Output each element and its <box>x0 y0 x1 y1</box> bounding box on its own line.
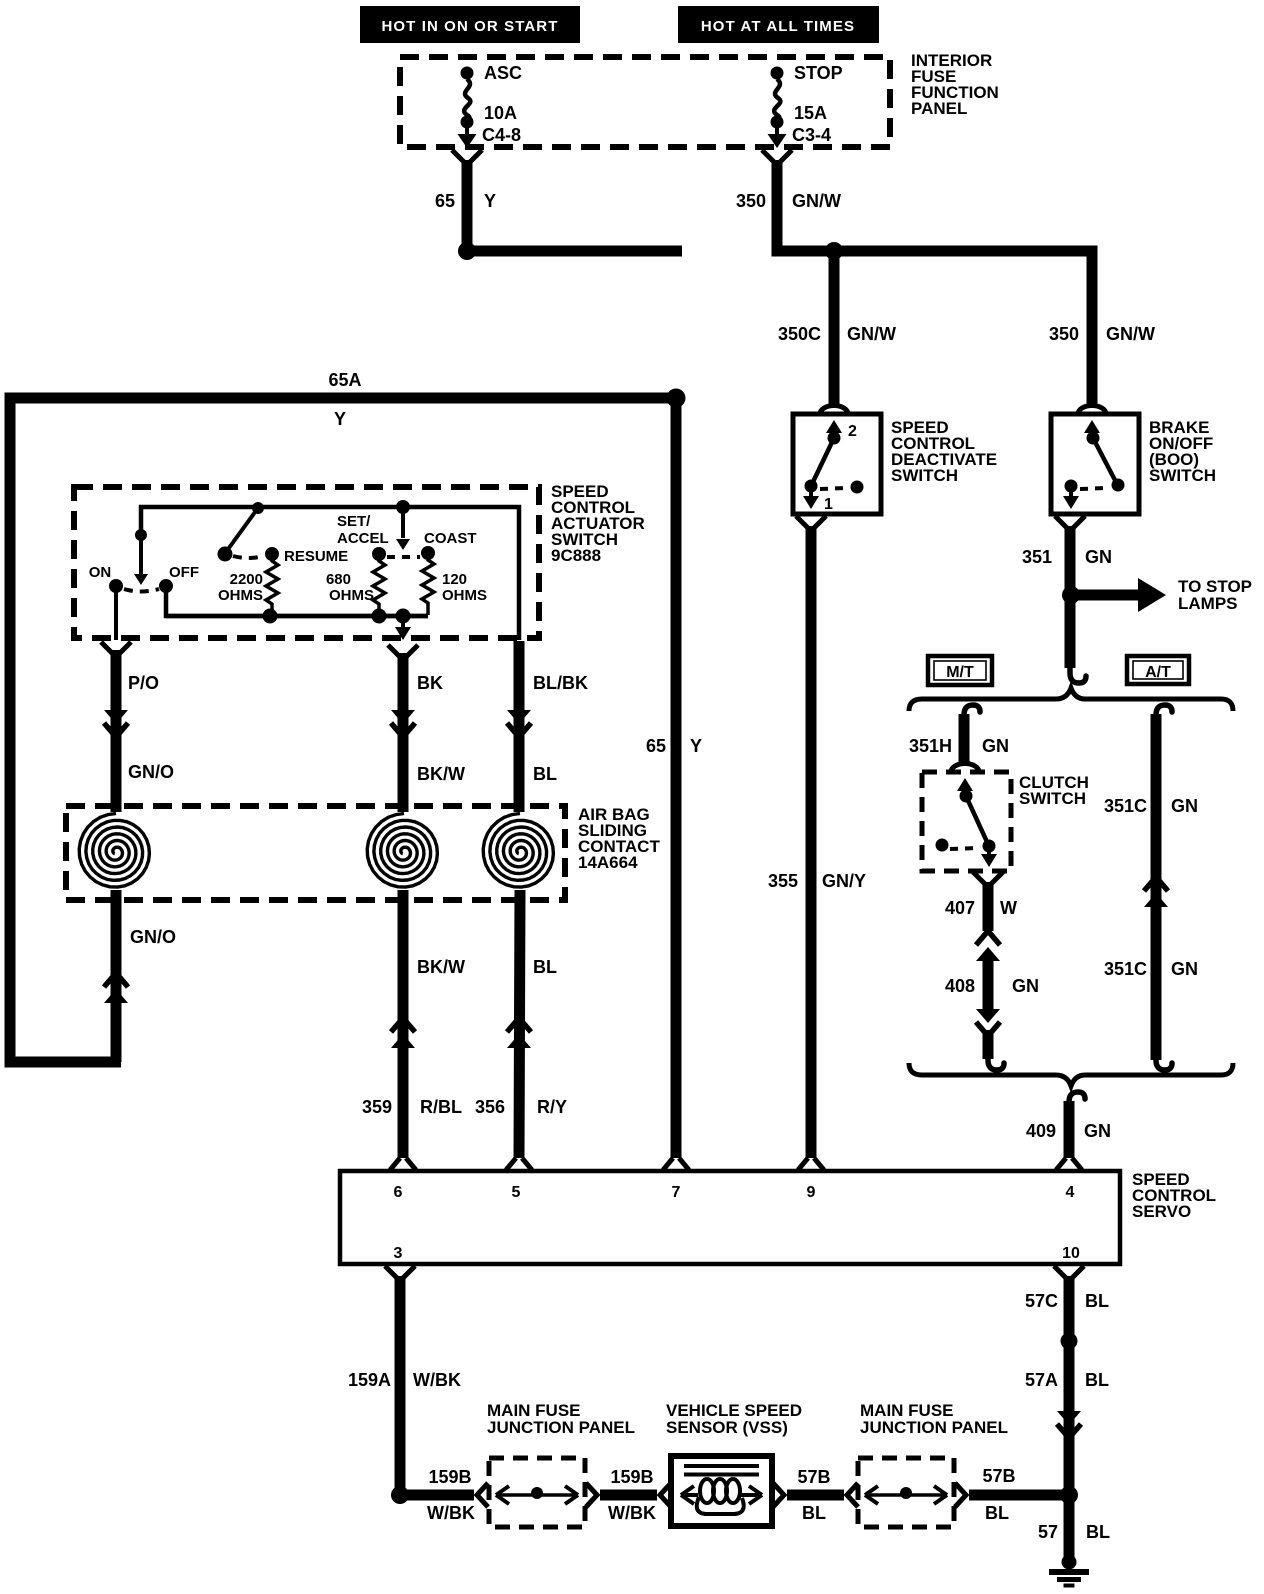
svg-text:C3-4: C3-4 <box>792 125 831 145</box>
svg-text:Y: Y <box>484 191 496 211</box>
svg-text:10A: 10A <box>484 103 517 123</box>
brake on/off (BOO) switch box <box>1051 414 1139 514</box>
dashed contact SET-COAST <box>387 555 420 559</box>
label BRAKE ON/OFF (BOO) SWITCH <box>1149 418 1216 485</box>
junction node 57 <box>1060 1486 1078 1504</box>
resume arm diagonal <box>218 502 265 562</box>
resistor 2200 OHMS <box>218 554 278 616</box>
svg-text:W/BK: W/BK <box>608 1503 656 1523</box>
dashed contact arc ON-OFF <box>124 589 159 592</box>
servo entry pin 4 <box>1056 1158 1082 1170</box>
svg-text:HOT AT ALL TIMES: HOT AT ALL TIMES <box>701 18 855 35</box>
wire 351C hook <box>1156 705 1172 724</box>
connector lower on 408 wire <box>976 1009 1000 1023</box>
svg-text:GN: GN <box>982 736 1009 756</box>
svg-text:350C: 350C <box>778 324 821 344</box>
spiral contact 1 <box>79 814 149 888</box>
clutch switch entry <box>951 764 979 773</box>
svg-text:9: 9 <box>807 1184 816 1201</box>
wire 351H GN hook <box>964 705 980 724</box>
svg-text:359: 359 <box>362 1097 392 1117</box>
connector on BK/W lower <box>391 1018 415 1032</box>
label VEHICLE SPEED SENSOR (VSS) <box>666 1401 802 1437</box>
svg-text:SET/: SET/ <box>337 513 371 530</box>
svg-text:14A664: 14A664 <box>578 853 638 872</box>
svg-text:57B: 57B <box>797 1467 830 1487</box>
header HOT IN ON OR START <box>360 6 580 43</box>
air bag sliding contact box 14A664 <box>66 806 565 900</box>
clutch switch exit <box>973 872 1003 885</box>
svg-text:65: 65 <box>646 736 666 756</box>
wire 409 GN <box>1026 1101 1111 1158</box>
svg-text:BL: BL <box>533 957 557 977</box>
svg-text:SWITCH: SWITCH <box>1019 789 1086 808</box>
svg-text:R/Y: R/Y <box>537 1097 567 1117</box>
wire 408 end hook <box>988 1051 1004 1070</box>
wire 351 GN <box>1022 526 1112 668</box>
svg-text:350: 350 <box>1049 324 1079 344</box>
svg-text:COAST: COAST <box>424 530 477 547</box>
label MAIN FUSE JUNCTION PANEL 1 <box>487 1401 635 1437</box>
svg-text:W/BK: W/BK <box>427 1503 475 1523</box>
svg-text:SWITCH: SWITCH <box>1149 466 1216 485</box>
svg-text:408: 408 <box>945 976 975 996</box>
svg-text:7: 7 <box>672 1184 681 1201</box>
label AIR BAG SLIDING CONTACT 14A664 <box>578 805 660 872</box>
svg-text:GN/O: GN/O <box>130 927 176 947</box>
wire from ON contact down <box>114 592 118 640</box>
fuse ASC 10A <box>458 63 523 148</box>
contact ON <box>89 564 123 593</box>
svg-text:5: 5 <box>512 1184 521 1201</box>
wire from OFF contact to bottom line <box>166 592 428 616</box>
svg-text:BL: BL <box>802 1503 826 1523</box>
label SPEED CONTROL ACTUATOR SWITCH 9C888 <box>551 482 645 565</box>
contact OFF <box>159 564 199 593</box>
wire 350 GN/W label right branch <box>1049 324 1155 344</box>
wire BK/W lower to servo pin 6 <box>362 890 465 1158</box>
wire BL/BK from coast side <box>519 641 588 812</box>
speed control deactivate switch box <box>793 414 881 514</box>
wire 408 to brace <box>983 1030 994 1059</box>
wire 350 GN/W from fuse <box>736 150 1092 404</box>
svg-text:GN/O: GN/O <box>128 762 174 782</box>
speed control servo box <box>340 1171 1120 1264</box>
svg-text:350: 350 <box>736 191 766 211</box>
connector on GN/O lower <box>104 973 128 987</box>
svg-text:OHMS: OHMS <box>442 587 487 604</box>
svg-text:57: 57 <box>1038 1522 1058 1542</box>
svg-text:10: 10 <box>1062 1245 1080 1262</box>
svg-text:BK/W: BK/W <box>417 764 465 784</box>
svg-text:409: 409 <box>1026 1121 1056 1141</box>
svg-text:680: 680 <box>326 571 351 588</box>
svg-text:BL: BL <box>1085 1370 1109 1390</box>
wire 65 Y from fuse to junction <box>435 150 496 251</box>
svg-text:BL: BL <box>985 1503 1009 1523</box>
brake switch exit <box>1055 516 1085 529</box>
svg-text:GN: GN <box>1084 1121 1111 1141</box>
wire 351C GN upper <box>1104 714 1198 1060</box>
svg-text:W: W <box>1000 898 1017 918</box>
wire 57 BL to ground <box>1038 1495 1110 1562</box>
main fuse junction panel box 2 <box>858 1458 954 1527</box>
resistor 680 OHMS <box>326 554 385 616</box>
servo pin 10 exit <box>1054 1266 1084 1279</box>
servo pin numbers <box>394 1184 1080 1262</box>
wire 57B BL segment 2 <box>969 1466 1069 1523</box>
svg-text:159B: 159B <box>428 1467 471 1487</box>
connector on BL/BK wire <box>507 710 531 724</box>
svg-text:351H: 351H <box>909 736 952 756</box>
svg-text:159B: 159B <box>610 1467 653 1487</box>
svg-text:BL: BL <box>1086 1522 1110 1542</box>
svg-text:BK/W: BK/W <box>417 957 465 977</box>
svg-text:RESUME: RESUME <box>284 548 348 565</box>
svg-text:ON: ON <box>89 564 112 581</box>
svg-text:120: 120 <box>442 571 467 588</box>
A/T box <box>1127 656 1189 684</box>
svg-text:57A: 57A <box>1025 1370 1058 1390</box>
servo entry pin 5 <box>506 1158 532 1170</box>
upper brace <box>909 688 1233 711</box>
connector into junction panel 1 <box>477 1483 488 1507</box>
label 57A BL <box>1025 1370 1109 1390</box>
servo entry pin 7 <box>663 1158 689 1170</box>
connector into VSS <box>660 1483 671 1507</box>
svg-text:BL/BK: BL/BK <box>533 673 588 693</box>
wire 409 GN hook <box>1069 1092 1085 1111</box>
svg-text:GN/W: GN/W <box>847 324 896 344</box>
svg-text:STOP: STOP <box>794 63 843 83</box>
svg-text:GN: GN <box>1171 959 1198 979</box>
main fuse junction panel box 1 <box>489 1458 585 1527</box>
connector on BK wire <box>391 710 415 724</box>
svg-text:6: 6 <box>394 1184 403 1201</box>
svg-text:A/T: A/T <box>1145 664 1171 681</box>
svg-text:4: 4 <box>1066 1184 1075 1201</box>
set/accel arm <box>396 500 410 550</box>
svg-text:BL: BL <box>1085 1291 1109 1311</box>
svg-text:BK: BK <box>417 673 443 693</box>
svg-text:356: 356 <box>475 1097 505 1117</box>
servo entry pin 9 <box>798 1158 824 1170</box>
junction panel 1 internals <box>496 1486 578 1504</box>
header HOT AT ALL TIMES <box>678 6 879 43</box>
svg-text:OFF: OFF <box>169 564 199 581</box>
svg-text:15A: 15A <box>794 103 827 123</box>
junction panel 2 internals <box>865 1486 947 1504</box>
connector on P/O wire <box>104 710 128 724</box>
svg-text:M/T: M/T <box>946 664 974 681</box>
svg-text:ASC: ASC <box>484 63 522 83</box>
M/T box <box>928 656 992 685</box>
wire GN/O lower <box>116 890 176 1062</box>
deactivate switch exit <box>796 516 826 529</box>
wire 57B BL segment 1 <box>787 1467 844 1523</box>
svg-text:GN: GN <box>1085 547 1112 567</box>
wire 159A W/BK <box>348 1276 461 1495</box>
svg-text:57C: 57C <box>1025 1291 1058 1311</box>
wire 351C end hook <box>1156 1051 1172 1070</box>
actuator switch inner circuit top line <box>141 507 519 640</box>
clutch switch internals <box>936 778 998 867</box>
svg-text:9C888: 9C888 <box>551 546 601 565</box>
junction node at 65 wire corner <box>458 242 476 260</box>
svg-text:GN: GN <box>1171 796 1198 816</box>
connector out of VSS <box>773 1483 784 1507</box>
actuator output arrow <box>395 616 411 640</box>
wire 57C BL <box>1025 1276 1109 1495</box>
svg-text:2: 2 <box>848 423 857 440</box>
lower brace <box>909 1063 1233 1086</box>
actuator ON/OFF arm <box>134 529 148 585</box>
svg-text:W/BK: W/BK <box>413 1370 461 1390</box>
svg-text:HOT IN ON OR START: HOT IN ON OR START <box>381 18 558 35</box>
svg-text:351C: 351C <box>1104 959 1147 979</box>
svg-text:351C: 351C <box>1104 796 1147 816</box>
wire 159B W/BK segment 2 <box>600 1467 657 1523</box>
VSS vent lines <box>684 1466 759 1475</box>
label CLUTCH SWITCH <box>1019 773 1089 808</box>
svg-text:2200: 2200 <box>230 571 263 588</box>
contact SET/ACCEL <box>337 513 389 561</box>
svg-text:OHMS: OHMS <box>329 587 374 604</box>
wire P/O from ON <box>101 642 159 812</box>
connector into junction panel 2 <box>847 1483 858 1507</box>
junction node 65A/65 <box>667 389 686 408</box>
connector on 57A wire <box>1057 1411 1081 1425</box>
svg-text:355: 355 <box>768 871 798 891</box>
connector out of junction panel 2 <box>955 1483 966 1507</box>
label SPEED CONTROL SERVO <box>1132 1170 1216 1221</box>
contact RESUME <box>265 547 348 565</box>
speed control actuator switch box 9C888 <box>74 487 539 638</box>
svg-text:GN: GN <box>1012 976 1039 996</box>
svg-text:OHMS: OHMS <box>218 587 263 604</box>
wire 350C GN/W to deactivate switch <box>778 251 896 404</box>
arrow TO STOP LAMPS <box>1078 577 1252 613</box>
speed control deactivate switch entry <box>820 406 848 415</box>
wire horizontal 65 feed <box>467 246 682 257</box>
wire 355 GN/Y to servo pin 9 <box>768 526 866 1158</box>
wire 65A Y rail <box>10 370 682 1062</box>
label MAIN FUSE JUNCTION PANEL 2 <box>860 1401 1008 1437</box>
svg-text:JUNCTION PANEL: JUNCTION PANEL <box>860 1418 1008 1437</box>
svg-text:57B: 57B <box>982 1466 1015 1486</box>
interior fuse function panel box <box>400 57 890 147</box>
brake on/off switch entry <box>1078 406 1106 415</box>
svg-text:C4-8: C4-8 <box>482 125 521 145</box>
svg-text:PANEL: PANEL <box>911 99 967 118</box>
svg-text:LAMPS: LAMPS <box>1178 594 1238 613</box>
junction node pin3/159B <box>391 1486 409 1504</box>
connector out of junction panel 1 <box>586 1483 597 1507</box>
deactivate switch internals <box>803 420 864 513</box>
wire 407 W <box>945 882 1017 931</box>
junction node 57C/57A <box>1061 1333 1078 1350</box>
connector on 351C wire <box>1144 877 1168 891</box>
svg-text:Y: Y <box>334 409 346 429</box>
spiral contact 2 <box>367 814 437 888</box>
spiral contact 3 <box>483 814 553 888</box>
servo entry pin 6 <box>390 1158 416 1170</box>
label INTERIOR FUSE FUNCTION PANEL <box>911 51 999 118</box>
wire 351 end hook <box>1070 664 1086 683</box>
svg-text:407: 407 <box>945 898 975 918</box>
connector on 407/408 wire <box>976 931 1000 945</box>
brake switch internals <box>1063 420 1125 509</box>
wire BL lower to servo pin 5 <box>475 890 567 1158</box>
dashed contact RESUME <box>233 556 264 558</box>
svg-text:GN/W: GN/W <box>1106 324 1155 344</box>
connector on BL lower <box>507 1018 531 1032</box>
svg-text:GN/W: GN/W <box>792 191 841 211</box>
svg-text:ACCEL: ACCEL <box>337 530 389 547</box>
resistor 120 OHMS <box>422 553 487 615</box>
svg-text:65A: 65A <box>328 370 361 390</box>
contact COAST <box>421 530 477 560</box>
svg-text:1: 1 <box>824 496 833 513</box>
ground <box>1049 1555 1089 1586</box>
actuator bottom line <box>166 614 428 619</box>
svg-text:3: 3 <box>394 1245 403 1262</box>
svg-text:BL: BL <box>533 764 557 784</box>
svg-text:GN/Y: GN/Y <box>822 871 866 891</box>
svg-text:65: 65 <box>435 191 455 211</box>
svg-text:159A: 159A <box>348 1370 391 1390</box>
wire 351H GN <box>909 714 1009 762</box>
wire 65 Y to servo pin 7 <box>646 398 702 1158</box>
vehicle speed sensor box <box>671 1456 772 1526</box>
junction node 350/350C <box>825 242 843 260</box>
fuse STOP 15A <box>768 63 843 148</box>
svg-text:SWITCH: SWITCH <box>891 466 958 485</box>
servo pin 3 exit <box>385 1266 415 1279</box>
wire 408 GN <box>945 957 1039 1009</box>
wire BK from output <box>388 645 443 812</box>
label SPEED CONTROL DEACTIVATE SWITCH <box>891 418 997 485</box>
VSS coil <box>681 1479 762 1514</box>
svg-text:JUNCTION PANEL: JUNCTION PANEL <box>487 1418 635 1437</box>
junction nodes bottom line <box>263 609 278 624</box>
svg-text:R/BL: R/BL <box>420 1097 462 1117</box>
svg-text:351: 351 <box>1022 547 1052 567</box>
wire 159B W/BK segment 1 <box>400 1467 475 1523</box>
clutch switch box <box>922 772 1011 871</box>
svg-text:Y: Y <box>690 736 702 756</box>
svg-text:SERVO: SERVO <box>1132 1202 1191 1221</box>
svg-text:SENSOR (VSS): SENSOR (VSS) <box>666 1418 788 1437</box>
svg-text:P/O: P/O <box>128 673 159 693</box>
junction node to stop lamps <box>1062 586 1080 604</box>
